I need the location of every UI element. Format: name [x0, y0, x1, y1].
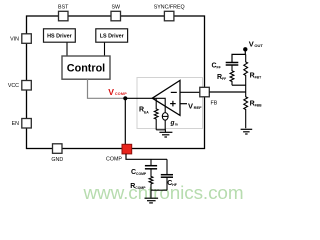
- svg-text:VIN: VIN: [10, 37, 19, 43]
- svg-text:FBB: FBB: [255, 104, 263, 108]
- svg-text:HS Driver: HS Driver: [47, 34, 72, 40]
- label CHF: [167, 180, 177, 187]
- svg-text:www.cntronics.com: www.cntronics.com: [83, 183, 244, 204]
- label VCOMP (red): [108, 87, 127, 97]
- Control block: [62, 56, 110, 79]
- svg-text:V: V: [249, 39, 254, 48]
- svg-text:VCC: VCC: [8, 83, 19, 89]
- label RFF: [217, 74, 226, 81]
- wire VCOMP node to op-amp output: [125, 97, 153, 99]
- op-amp error amplifier (gm): [152, 80, 180, 115]
- label RCOMP: [130, 183, 146, 190]
- capacitor CHF: [161, 159, 173, 190]
- svg-text:GND: GND: [51, 157, 63, 163]
- capacitor CCOMP: [145, 159, 157, 169]
- svg-text:SYNC/FREQ: SYNC/FREQ: [154, 4, 185, 10]
- pin COMP (red): [106, 144, 132, 162]
- LS Driver block: [96, 29, 128, 42]
- svg-text:BST: BST: [58, 4, 69, 10]
- resistor RFBT: [244, 54, 248, 92]
- pin BST: [58, 4, 69, 21]
- resistor REA: [154, 98, 158, 130]
- label gm: [170, 120, 178, 127]
- ground below RCOMP: [145, 198, 159, 203]
- svg-text:FBT: FBT: [255, 76, 263, 80]
- pin EN: [12, 119, 32, 129]
- pin VIN: [10, 34, 31, 44]
- svg-text:m: m: [175, 123, 178, 127]
- label RFBT: [250, 73, 263, 80]
- wire REA/gm bottom join: [156, 130, 165, 133]
- watermark www.cntronics.com: [83, 183, 244, 204]
- wire VCOMP node to COMP pin: [124, 98, 126, 144]
- node VOUT dot: [243, 47, 247, 51]
- capacitor CFF: [226, 63, 239, 66]
- wire CHF bottom to RCOMP bottom: [151, 190, 167, 197]
- wire VOUT to divider top: [232, 49, 245, 62]
- svg-text:SW: SW: [112, 4, 121, 10]
- label VOUT: [249, 39, 264, 48]
- current source gm: [153, 98, 168, 130]
- wire RFF bottom to divider: [232, 84, 246, 86]
- resistor RFBB: [244, 92, 248, 128]
- wire HS Driver to Control: [66, 42, 68, 56]
- wire LS Driver to Control: [104, 42, 106, 56]
- svg-text:V: V: [108, 87, 114, 97]
- wire Control to VCOMP node (gray): [88, 79, 126, 98]
- pin VCC: [8, 81, 31, 91]
- svg-text:LS Driver: LS Driver: [100, 34, 125, 40]
- label RFBB: [250, 101, 263, 108]
- wire non-inverting input to VREF: [180, 103, 187, 105]
- HS Driver block: [44, 29, 76, 42]
- svg-text:COMP: COMP: [106, 157, 122, 163]
- svg-text:HF: HF: [172, 183, 177, 187]
- IC outline U1: [27, 16, 205, 149]
- wire inverting input to FB pin: [180, 91, 200, 93]
- svg-text:EA: EA: [144, 111, 149, 115]
- svg-text:FF: FF: [222, 77, 226, 81]
- svg-text:COMP: COMP: [115, 92, 127, 96]
- resistor RCOMP: [149, 169, 153, 190]
- svg-text:COMP: COMP: [136, 172, 147, 176]
- pin GND: [51, 144, 63, 163]
- svg-text:OUT: OUT: [254, 43, 263, 48]
- svg-text:Control: Control: [67, 63, 105, 75]
- node VCOMP junction dot: [123, 96, 127, 100]
- pin FB: [200, 87, 218, 106]
- EA group gray panel: [137, 78, 203, 129]
- svg-text:V: V: [188, 102, 193, 111]
- wire COMP pin to compensation network: [126, 154, 167, 159]
- label CFF: [212, 62, 221, 69]
- label CCOMP: [131, 169, 147, 176]
- svg-text:COMP: COMP: [135, 186, 146, 190]
- svg-text:REF: REF: [194, 105, 203, 110]
- pin SYNC/FREQ: [154, 4, 185, 21]
- svg-text:FB: FB: [211, 101, 218, 107]
- label VREF: [188, 102, 202, 111]
- resistor RFF: [230, 65, 234, 85]
- label REA: [139, 107, 149, 115]
- svg-text:EN: EN: [12, 121, 20, 127]
- wire FB pin to divider: [209, 91, 245, 93]
- pin SW: [111, 4, 121, 21]
- svg-text:FF: FF: [217, 65, 221, 69]
- ground below RFBB: [241, 129, 253, 134]
- ground below gm: [159, 132, 172, 137]
